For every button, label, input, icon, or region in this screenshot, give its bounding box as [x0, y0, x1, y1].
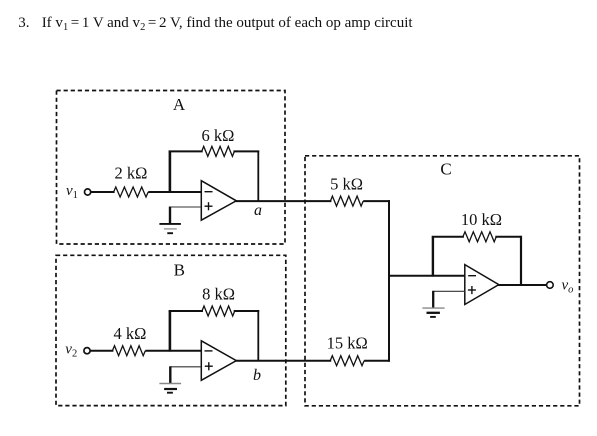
resistor 8 kOhm: [202, 306, 235, 316]
ground C: [422, 308, 444, 317]
node junction B feedback tap: [169, 311, 172, 352]
svg-text:10 kΩ: 10 kΩ: [461, 210, 502, 229]
wire U3 output to vo terminal: [498, 284, 547, 286]
svg-text:If v1=1 V and v2=2 V, find the: If v1=1 V and v2=2 V, find the output of…: [42, 15, 414, 33]
title: [18, 15, 413, 33]
node junction C feedback tap: [432, 237, 434, 277]
terminal v1: [85, 189, 91, 195]
resistor 2 kOhm: [114, 187, 149, 197]
wire U1 plus to ground stem: [169, 207, 171, 225]
wire feedback top right C: [495, 236, 522, 238]
svg-text:v2: v2: [65, 342, 77, 360]
wire R2k to op-amp U1 inverting input: [148, 191, 201, 193]
wire feedback top right B: [234, 310, 260, 312]
wire U3 plus to ground stem: [432, 291, 434, 308]
wire U1 noninverting input: [170, 206, 201, 208]
wire node a: U1 output to R5k: [235, 200, 331, 202]
wire feedback top left C: [432, 236, 464, 238]
region B dashed box: [56, 255, 286, 405]
wire R15k to bus: [364, 360, 390, 362]
node junction A feedback tap: [169, 151, 172, 193]
ground A: [159, 224, 181, 233]
wire v2 terminal to R4k: [90, 350, 113, 352]
svg-text:a: a: [254, 202, 262, 219]
resistor 4 kOhm: [112, 346, 145, 356]
wire summing bus vertical: [388, 200, 390, 362]
op-amp U3: [465, 265, 499, 305]
wire feedback top left A: [169, 150, 203, 152]
terminal vo: [547, 282, 554, 289]
ground B: [159, 384, 181, 393]
wire v1 terminal to R2k: [91, 191, 115, 193]
svg-text:4 kΩ: 4 kΩ: [113, 324, 146, 343]
wire feedback right vertical C: [520, 236, 522, 285]
svg-text:2 kΩ: 2 kΩ: [114, 164, 147, 183]
svg-text:b: b: [253, 367, 261, 384]
resistor 5 kOhm: [330, 196, 363, 206]
svg-text:8 kΩ: 8 kΩ: [202, 285, 235, 304]
svg-text:15 kΩ: 15 kΩ: [327, 333, 368, 352]
svg-text:3.: 3.: [18, 15, 29, 31]
resistor 15 kOhm: [330, 356, 364, 366]
wire feedback top right A: [233, 150, 259, 152]
svg-text:C: C: [440, 159, 451, 178]
wire feedback right vertical A: [257, 151, 259, 202]
svg-text:v1: v1: [66, 183, 78, 201]
region C dashed box: [305, 156, 580, 406]
wire feedback right vertical B: [257, 310, 259, 361]
resistor 6 kOhm: [202, 146, 235, 156]
svg-text:vo: vo: [562, 278, 574, 296]
resistor 10 kOhm: [463, 232, 496, 242]
terminal v2: [84, 348, 90, 354]
wire U3 noninverting input: [433, 290, 465, 292]
op-amp U2: [201, 341, 236, 381]
svg-text:B: B: [174, 261, 185, 280]
svg-text:A: A: [173, 95, 186, 114]
svg-text:6 kΩ: 6 kΩ: [202, 126, 235, 145]
wire R4k to op-amp U2 inverting input: [145, 350, 201, 352]
wire node b: U2 output to R15k: [235, 360, 331, 362]
op-amp U1: [201, 181, 236, 221]
region A dashed box: [57, 91, 286, 245]
wire feedback top left B: [169, 310, 203, 312]
wire R5k to bus: [363, 200, 390, 202]
wire U2 noninverting input: [170, 366, 201, 368]
wire bus to op-amp U3 inverting input: [389, 275, 465, 277]
wire U2 plus to ground stem: [169, 366, 171, 383]
svg-text:5 kΩ: 5 kΩ: [330, 175, 363, 194]
